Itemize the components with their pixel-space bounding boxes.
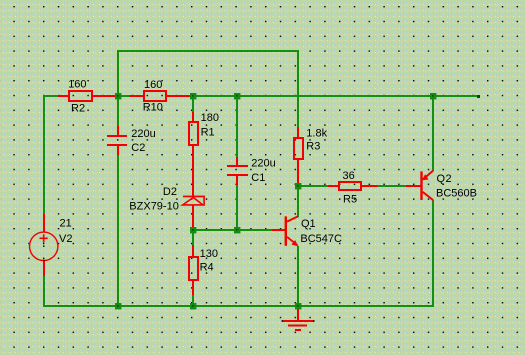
wire R1 D2 R4 branch x=193 <box>192 95 194 113</box>
svg-text:220u: 220u <box>251 158 275 170</box>
svg-text:V2: V2 <box>59 233 72 245</box>
junction j2 <box>190 93 196 99</box>
svg-text:220u: 220u <box>131 128 155 140</box>
junction j9 <box>295 183 301 189</box>
junction j1 <box>115 93 121 99</box>
svg-text:BC560B: BC560B <box>436 188 477 200</box>
svg-text:R1: R1 <box>201 127 215 139</box>
svg-text:Q2: Q2 <box>437 173 453 185</box>
voltage source V2 <box>30 214 73 276</box>
svg-text:R10: R10 <box>143 102 163 114</box>
transistor Q1 BC547C <box>272 216 342 246</box>
svg-text:160: 160 <box>144 79 162 91</box>
svg-text:160: 160 <box>68 79 86 91</box>
wire R3 Q1 branch x=298 <box>297 183 299 217</box>
resistor R5 <box>328 170 377 206</box>
svg-text:180: 180 <box>201 112 219 124</box>
diode D2 zener BZX79-10 <box>129 186 205 227</box>
resistor R3 <box>294 127 328 183</box>
junction j4 <box>430 93 436 99</box>
svg-text:36: 36 <box>343 170 355 182</box>
junction j7 <box>190 303 196 309</box>
wire vertical x=118 top rail to main rail <box>117 50 119 97</box>
wire C1 branch x=237 <box>236 95 238 166</box>
svg-text:C2: C2 <box>131 142 145 154</box>
capacitor C2 <box>107 126 156 155</box>
ground <box>282 306 315 331</box>
svg-text:R4: R4 <box>200 262 214 274</box>
transistor Q2 BC560B <box>406 171 477 201</box>
svg-text:D2: D2 <box>163 186 177 198</box>
resistor R4 <box>189 245 218 295</box>
wire main rail y=96 <box>43 95 70 97</box>
junction j6 <box>190 227 196 233</box>
svg-text:R3: R3 <box>306 141 320 153</box>
resistor R1 <box>189 112 219 197</box>
wire vertical x=298 top rail to R3 <box>297 50 299 128</box>
resistor R2 <box>58 79 115 115</box>
wire Q2 branch x=433 <box>432 95 434 171</box>
capacitor C1 <box>227 157 276 185</box>
wire C2 branch x=118 <box>117 95 119 136</box>
svg-text:R5: R5 <box>343 194 357 206</box>
svg-text:Q1: Q1 <box>301 218 316 230</box>
junction j5 <box>115 303 121 309</box>
svg-text:BC547C: BC547C <box>300 233 342 245</box>
svg-text:C1: C1 <box>251 172 265 184</box>
junction j10 <box>295 303 301 309</box>
svg-text:130: 130 <box>200 248 218 260</box>
wire base wire y=230 <box>192 229 284 231</box>
svg-text:1.8k: 1.8k <box>306 127 327 139</box>
svg-text:21: 21 <box>60 218 72 230</box>
svg-text:BZX79-10: BZX79-10 <box>129 201 179 213</box>
junction j3 <box>234 93 240 99</box>
svg-text:R2: R2 <box>71 102 85 114</box>
wire bottom rail y=305 <box>43 305 434 307</box>
junction j8 <box>234 227 240 233</box>
wire R5 wire y=186 <box>298 185 328 187</box>
node end of rail <box>477 95 480 98</box>
wire top rail y=51 <box>117 50 299 52</box>
wire left branch V2 x=43 <box>43 95 45 232</box>
resistor R10 <box>129 79 191 114</box>
